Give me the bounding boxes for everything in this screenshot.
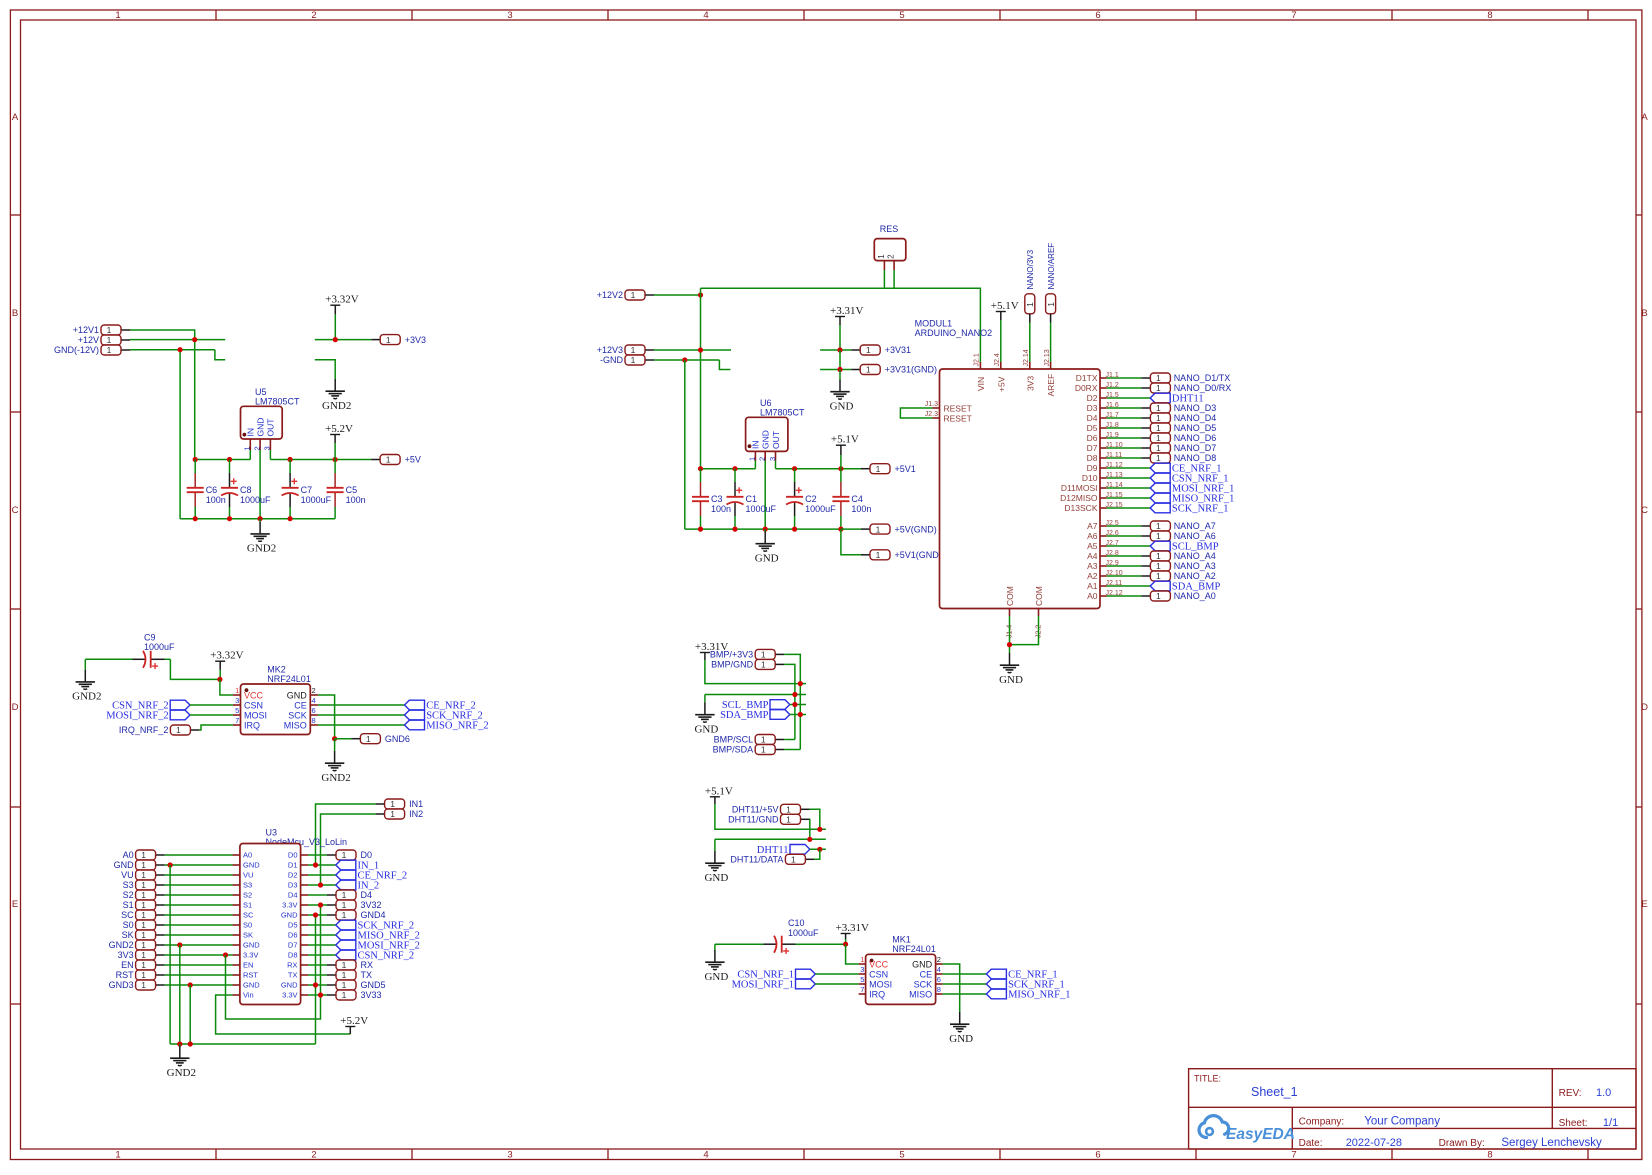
svg-text:1: 1 [243, 446, 252, 450]
wire D3 row [308, 884, 336, 886]
capacitor C8 1000uF [221, 460, 271, 519]
svg-text:MISO: MISO [909, 989, 932, 999]
svg-text:D8: D8 [1087, 453, 1098, 463]
wire RES bus to VIN [701, 288, 981, 362]
svg-text:1: 1 [1156, 373, 1161, 383]
title block [1189, 1069, 1636, 1149]
svg-text:+3.32V: +3.32V [325, 294, 358, 306]
ground GND below NANO [999, 653, 1023, 686]
svg-text:SCK: SCK [914, 979, 933, 989]
wire NANO row SCL_BMP [1107, 545, 1151, 547]
svg-text:1: 1 [342, 850, 347, 860]
wire GND row at DHT11 [715, 838, 826, 840]
svg-text:GND2: GND2 [109, 940, 134, 950]
wire CSN MK1 [815, 973, 858, 975]
svg-text:IRQ_NRF_2: IRQ_NRF_2 [119, 725, 169, 735]
junction C4 bottom [838, 527, 843, 532]
wire NANO row NANO_A6 [1107, 535, 1142, 537]
power flag +5.2V [325, 423, 353, 460]
svg-text:3: 3 [235, 696, 239, 705]
svg-text:OUT: OUT [266, 419, 276, 437]
svg-text:GND2: GND2 [247, 543, 276, 555]
ground GND2 below U5 [247, 519, 276, 555]
svg-text:100n: 100n [346, 495, 366, 505]
wire D6 row [308, 934, 336, 936]
net flag MISO_NRF_1 [1150, 493, 1234, 504]
svg-text:D0RX: D0RX [1075, 383, 1098, 393]
junction C6 top [193, 457, 198, 462]
svg-text:Vin: Vin [243, 991, 254, 1000]
svg-text:A3: A3 [1087, 561, 1098, 571]
junction C7 bottom [288, 516, 293, 521]
net port +5V [371, 455, 421, 465]
net port D4 [327, 890, 372, 900]
svg-text:IN1: IN1 [409, 799, 423, 809]
svg-text:1000uF: 1000uF [788, 928, 819, 938]
svg-text:1: 1 [141, 940, 146, 950]
svg-text:A7: A7 [1087, 521, 1098, 531]
svg-text:Drawn By:: Drawn By: [1439, 1138, 1485, 1149]
net port IN2 [376, 809, 424, 819]
svg-text:+3V3: +3V3 [405, 335, 426, 345]
svg-text:1: 1 [1156, 403, 1161, 413]
net port EN at U3 [121, 960, 165, 970]
net port SC at U3 [121, 910, 165, 920]
junction C8 top [227, 457, 232, 462]
svg-text:1000uF: 1000uF [240, 495, 271, 505]
wire GND2 to U3 [165, 944, 233, 946]
net flag IN_2 [336, 880, 379, 891]
svg-text:D0: D0 [361, 850, 373, 860]
net port NANO/3V3 [1025, 249, 1035, 322]
net port NANO_D3 [1141, 403, 1216, 413]
svg-text:7: 7 [860, 985, 864, 994]
wire D0 row [308, 854, 327, 856]
svg-text:7: 7 [1291, 10, 1296, 21]
wire SCK MK1 [943, 983, 987, 985]
net port BMP/SDA [713, 745, 785, 755]
net port NANO_D6 [1141, 433, 1216, 443]
net port +12V [78, 335, 130, 345]
svg-text:S3: S3 [243, 881, 252, 890]
junction +3.31V C10 [843, 942, 848, 947]
svg-text:EN: EN [121, 960, 134, 970]
svg-text:A0: A0 [123, 850, 134, 860]
svg-text:1: 1 [176, 725, 181, 735]
wire +3V31 row [820, 349, 851, 351]
net flag SCK_NRF_2 at U3 [336, 920, 414, 931]
ground GND2 below MK2 [321, 739, 350, 784]
svg-text:VU: VU [121, 870, 134, 880]
svg-text:D7: D7 [288, 941, 298, 950]
net flag SDA_BMP [1150, 581, 1220, 592]
svg-text:DHT11/+5V: DHT11/+5V [732, 805, 779, 815]
wire RST to U3 [165, 974, 233, 976]
svg-text:1: 1 [876, 550, 881, 560]
svg-text:VCC: VCC [244, 690, 264, 700]
power flag +3.31V center [830, 305, 863, 350]
svg-text:IN: IN [751, 441, 761, 450]
svg-text:C2: C2 [805, 494, 817, 504]
wire GND4 row [308, 914, 327, 916]
svg-text:MOSI: MOSI [244, 710, 267, 720]
svg-text:U6: U6 [760, 398, 772, 408]
svg-text:LM7805CT: LM7805CT [760, 408, 805, 418]
net flag DHT11 [1150, 393, 1203, 404]
net flag MOSI_NRF_2 at U3 [336, 940, 420, 951]
svg-text:NANO/AREF: NANO/AREF [1047, 243, 1056, 290]
svg-text:SC: SC [243, 911, 254, 920]
net flag CE_NRF_1 [1150, 463, 1221, 474]
ground GND2 below U3 [167, 1044, 196, 1079]
svg-text:S2: S2 [123, 890, 134, 900]
svg-text:3: 3 [860, 965, 864, 974]
junction DHT11 data [817, 847, 822, 852]
svg-text:RX: RX [287, 961, 297, 970]
svg-text:8: 8 [1487, 10, 1492, 21]
svg-text:BMP/+3V3: BMP/+3V3 [710, 650, 753, 660]
svg-text:NRF24L01: NRF24L01 [267, 674, 311, 684]
wire -GND down to bottom bus [684, 360, 686, 529]
svg-text:+5V(GND): +5V(GND) [895, 524, 937, 534]
svg-text:U3: U3 [266, 828, 278, 838]
wire MK1 GND pin down [943, 964, 960, 1012]
module MK1 NRF24L01 [859, 935, 943, 1005]
svg-text:NANO_A7: NANO_A7 [1174, 521, 1216, 531]
svg-text:A4: A4 [1087, 551, 1098, 561]
svg-text:GND4: GND4 [361, 910, 386, 920]
wire NANO row CSN_NRF_1 [1107, 477, 1151, 479]
wire 3V33 row [308, 994, 327, 996]
svg-text:MOSI: MOSI [869, 979, 892, 989]
svg-text:DHT11/GND: DHT11/GND [728, 815, 779, 825]
module MODUL1 ARDUINO_NANO2 [915, 318, 1123, 638]
svg-text:SCK_NRF_1: SCK_NRF_1 [1172, 504, 1229, 515]
junction BMP GND column [792, 692, 797, 697]
junction GND at U3 [168, 862, 173, 867]
svg-text:C9: C9 [144, 633, 156, 643]
wire 3V3 to U3 [165, 954, 233, 956]
svg-text:NANO_A6: NANO_A6 [1174, 531, 1216, 541]
svg-text:MISO_NRF_2: MISO_NRF_2 [426, 721, 488, 732]
wire NANO row DHT11 [1107, 397, 1151, 399]
svg-text:CE: CE [920, 969, 933, 979]
wire +3V31 to +3V31(GND) [839, 350, 841, 370]
svg-text:E: E [1641, 899, 1647, 910]
net port IN1 [376, 799, 424, 809]
wire RES pin2 down [893, 270, 895, 288]
svg-text:A5: A5 [1087, 541, 1098, 551]
wire MK2 GND pin to GND6 [318, 695, 335, 739]
net port GND6 [351, 734, 410, 744]
svg-text:1: 1 [1156, 571, 1161, 581]
net port +3V3 [371, 335, 426, 345]
svg-text:D6: D6 [288, 931, 298, 940]
wire EN to U3 [165, 964, 233, 966]
wire U5 pin2 GND down [259, 450, 261, 519]
wire CSN MK2 [190, 704, 233, 706]
svg-text:MK1: MK1 [892, 935, 911, 945]
svg-text:A6: A6 [1087, 531, 1098, 541]
wire GND to U3 [165, 864, 233, 866]
MCU module U3 NodeMcu_V3_LoLin [233, 828, 348, 1005]
svg-text:GND: GND [912, 959, 933, 969]
wire RESET loop [900, 408, 932, 418]
net port A0 at U3 [123, 850, 165, 860]
svg-text:D4: D4 [1087, 413, 1098, 423]
wire +12V2 row [654, 294, 701, 296]
net port +5V(GND) [861, 524, 937, 534]
svg-text:ARDUINO_NANO2: ARDUINO_NANO2 [915, 328, 993, 338]
wire +12V2 column [700, 288, 702, 468]
svg-text:1: 1 [761, 660, 766, 670]
svg-text:Sheet:: Sheet: [1559, 1118, 1588, 1129]
svg-text:NANO_D5: NANO_D5 [1174, 423, 1217, 433]
wire BMP/SCL to column [784, 739, 795, 741]
EasyEDA logo [1199, 1116, 1295, 1143]
svg-text:NANO_A3: NANO_A3 [1174, 561, 1216, 571]
net port RX [327, 960, 373, 970]
svg-text:GND: GND [999, 674, 1023, 686]
svg-text:2: 2 [311, 1150, 316, 1161]
svg-text:2: 2 [937, 955, 941, 964]
svg-text:GND: GND [281, 911, 298, 920]
svg-text:1: 1 [141, 960, 146, 970]
wire NANO row NANO_A3 [1107, 565, 1142, 567]
wire TX row [308, 974, 327, 976]
power flag +3.31V at MK1 [836, 922, 869, 944]
svg-text:NANO_A4: NANO_A4 [1174, 551, 1216, 561]
svg-text:1: 1 [366, 734, 371, 744]
svg-text:1: 1 [631, 345, 636, 355]
svg-text:C5: C5 [346, 485, 358, 495]
svg-text:1: 1 [141, 850, 146, 860]
junction C3 top [698, 466, 703, 471]
svg-text:NANO_D1/TX: NANO_D1/TX [1174, 373, 1231, 383]
wire NANO/AREF to AREF pin [1050, 323, 1052, 363]
junction U6 GND pin [763, 527, 768, 532]
net port NANO_A2 [1141, 571, 1215, 581]
junction 3V33 [318, 992, 323, 997]
svg-text:7: 7 [1291, 1150, 1296, 1161]
svg-text:J2.14: J2.14 [1023, 349, 1030, 366]
wire S1 to U3 [165, 904, 233, 906]
net port NANO_D4 [1141, 413, 1216, 423]
svg-text:1: 1 [107, 345, 112, 355]
svg-text:3V32: 3V32 [361, 900, 382, 910]
svg-text:+3.32V: +3.32V [210, 650, 243, 662]
net flag SCL_BMP [722, 700, 790, 711]
svg-text:+5.2V: +5.2V [340, 1015, 368, 1027]
junction +12V3 [698, 347, 703, 352]
svg-text:8: 8 [937, 985, 941, 994]
junction U5 GND pin [258, 516, 263, 521]
regulator U5 LM7805CT [241, 387, 301, 451]
power flag +5.1V at NANO [991, 300, 1019, 320]
svg-text:SK: SK [243, 931, 253, 940]
svg-text:+5V: +5V [405, 455, 421, 465]
svg-text:NANO_D8: NANO_D8 [1174, 453, 1217, 463]
net flag SCK_NRF_2 at MK2 [405, 710, 483, 721]
junction bus GND3 [188, 1041, 193, 1046]
svg-text:GND2: GND2 [321, 772, 350, 784]
junction GND(-12V) [178, 347, 183, 352]
svg-text:1: 1 [876, 524, 881, 534]
svg-text:D9: D9 [1087, 463, 1098, 473]
wire NANO row NANO_D8 [1107, 457, 1142, 459]
svg-text:D5: D5 [288, 921, 298, 930]
junction GND3 at U3 [188, 982, 193, 987]
svg-text:2: 2 [887, 254, 896, 259]
net port +5V1(GND) [861, 550, 942, 560]
svg-text:1: 1 [631, 290, 636, 300]
ground GND at BMP [694, 695, 718, 736]
net flag SCL_BMP [1150, 541, 1219, 552]
wire GND(-12V) down to bottom bus [179, 350, 181, 519]
svg-text:A2: A2 [1087, 571, 1098, 581]
svg-text:1: 1 [115, 1150, 120, 1161]
junction D1 IN_1 [313, 862, 318, 867]
net flag CSN_NRF_2 at U3 [336, 950, 414, 961]
svg-text:1: 1 [141, 870, 146, 880]
capacitor C2 1000uF [786, 469, 836, 529]
svg-text:3V33: 3V33 [361, 990, 382, 1000]
svg-text:1: 1 [390, 809, 395, 819]
svg-text:VIN: VIN [976, 377, 986, 391]
junction +3.32V C9 [217, 677, 222, 682]
wire U3 ground bus [170, 1043, 315, 1045]
ground GND2 left of MK2 [72, 659, 101, 702]
svg-text:GND: GND [949, 1033, 973, 1045]
svg-text:5: 5 [860, 975, 864, 984]
net port GND2 at U3 [109, 940, 165, 950]
svg-text:GND: GND [243, 981, 260, 990]
svg-text:A0: A0 [243, 851, 252, 860]
svg-text:1: 1 [107, 325, 112, 335]
junction C2 top [792, 466, 797, 471]
svg-text:1: 1 [141, 980, 146, 990]
svg-text:D10: D10 [1082, 473, 1098, 483]
svg-text:+3.31V: +3.31V [836, 922, 869, 934]
svg-text:1000uF: 1000uF [805, 504, 836, 514]
svg-text:GND: GND [287, 690, 308, 700]
net port NANO_D5 [1141, 423, 1216, 433]
svg-text:GND: GND [694, 724, 718, 736]
svg-text:D1: D1 [288, 861, 298, 870]
svg-text:IRQ: IRQ [869, 989, 885, 999]
svg-text:BMP/SCL: BMP/SCL [714, 735, 754, 745]
svg-text:1: 1 [141, 860, 146, 870]
wire to +5V1(GND) [841, 529, 861, 555]
svg-text:1: 1 [1156, 423, 1161, 433]
junction +12V2 [698, 292, 703, 297]
svg-text:GND: GND [243, 941, 260, 950]
svg-text:S1: S1 [243, 901, 252, 910]
svg-text:D4: D4 [361, 890, 373, 900]
net port 3V33 [327, 990, 382, 1000]
net flag MISO_NRF_1 at MK1 [986, 989, 1070, 1000]
net flag CSN_NRF_2 at MK2 [112, 700, 190, 711]
wire U6 pin1 to IN bus [754, 461, 756, 469]
svg-text:BMP/SDA: BMP/SDA [713, 745, 754, 755]
svg-text:GND2: GND2 [322, 400, 351, 412]
junction +3V31(GND) [837, 367, 842, 372]
wire BMP/SDA to column [784, 749, 800, 751]
svg-text:NANO_D3: NANO_D3 [1174, 403, 1217, 413]
svg-text:GND: GND [704, 971, 728, 983]
junction DHT11 GND [807, 837, 812, 842]
wire D1 row [308, 864, 336, 866]
svg-text:1: 1 [1156, 413, 1161, 423]
wire CE MK1 [943, 973, 987, 975]
svg-text:+5.1V: +5.1V [705, 785, 733, 797]
svg-text:J2.3: J2.3 [925, 411, 938, 418]
wire U5 pin3 to OUT bus [269, 450, 271, 460]
wire IRQ MK2 [199, 725, 233, 730]
svg-text:D3: D3 [288, 881, 298, 890]
wire NANO row NANO_A2 [1107, 575, 1142, 577]
junction COM [1007, 642, 1012, 647]
svg-text:RST: RST [116, 970, 135, 980]
svg-text:+5.2V: +5.2V [325, 423, 353, 435]
net port +12V3 [597, 345, 654, 355]
svg-text:1: 1 [235, 686, 239, 695]
wire GND(-12V) jog stub [215, 350, 225, 360]
net port TX [327, 970, 372, 980]
svg-text:SCK: SCK [288, 710, 307, 720]
svg-text:MK2: MK2 [267, 664, 286, 674]
svg-text:1: 1 [1025, 302, 1035, 307]
wire NANO row CE_NRF_1 [1107, 467, 1151, 469]
svg-text:+12V3: +12V3 [597, 345, 623, 355]
svg-text:GND: GND [114, 860, 135, 870]
svg-text:1: 1 [876, 464, 881, 474]
wire +12V row [130, 339, 225, 341]
svg-text:C10: C10 [788, 918, 805, 928]
net port NANO_A3 [1141, 561, 1215, 571]
svg-text:RESET: RESET [944, 413, 972, 423]
svg-text:GND: GND [281, 981, 298, 990]
svg-text:1: 1 [860, 955, 864, 964]
junction GND5 [313, 982, 318, 987]
junction BMP 3V3 column [798, 681, 803, 686]
svg-text:D: D [12, 702, 19, 713]
net port GND(-12V) [54, 345, 130, 355]
svg-text:1: 1 [1046, 302, 1056, 307]
junction D3 IN_2 [318, 882, 323, 887]
svg-text:1: 1 [141, 900, 146, 910]
svg-text:1: 1 [141, 930, 146, 940]
svg-text:D6: D6 [1087, 433, 1098, 443]
svg-text:1000uF: 1000uF [301, 495, 332, 505]
svg-text:Sheet_1: Sheet_1 [1251, 1085, 1298, 1099]
capacitor C7 1000uF [282, 460, 332, 519]
svg-text:CSN: CSN [869, 969, 888, 979]
svg-text:3: 3 [263, 446, 272, 450]
junction 3V3 at U3 [223, 952, 228, 957]
svg-text:RST: RST [243, 971, 258, 980]
wire NANO row NANO_A4 [1107, 555, 1142, 557]
junction GND4 [313, 912, 318, 917]
svg-text:NANO_D7: NANO_D7 [1174, 443, 1217, 453]
wire DHT11/DATA to column [814, 849, 819, 859]
svg-text:1: 1 [1156, 531, 1161, 541]
svg-text:-GND: -GND [600, 355, 623, 365]
svg-text:J2.13: J2.13 [1044, 349, 1051, 366]
svg-text:S3: S3 [123, 880, 134, 890]
net port NANO/AREF [1046, 243, 1056, 323]
svg-text:6: 6 [937, 975, 941, 984]
